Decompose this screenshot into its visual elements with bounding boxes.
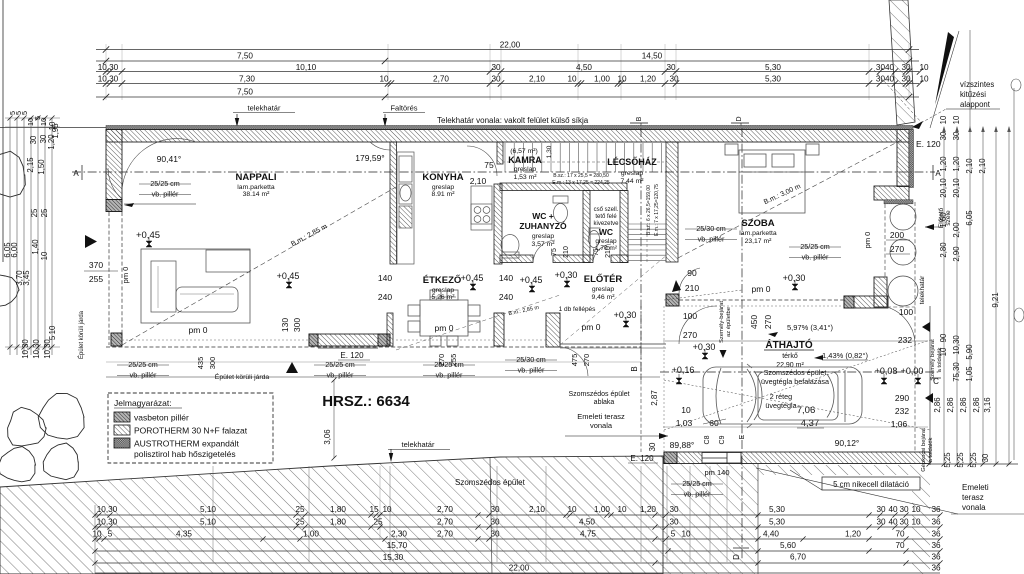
door arc wc <box>593 244 611 262</box>
svg-text:1 db fellépés: 1 db fellépés <box>559 306 597 313</box>
wall wc east <box>620 191 628 263</box>
svg-text:Épület körüli járda: Épület körüli járda <box>78 310 85 359</box>
car in athajto <box>703 364 862 428</box>
svg-text:vízszintes: vízszintes <box>960 80 994 89</box>
svg-text:270: 270 <box>890 244 904 254</box>
svg-text:greslap: greslap <box>595 238 617 245</box>
svg-text:30: 30 <box>876 518 886 527</box>
svg-text:D: D <box>732 554 741 560</box>
svg-text:a toldalék: a toldalék <box>937 347 943 372</box>
svg-text:POROTHERM 30 N+F falazat: POROTHERM 30 N+F falazat <box>134 426 248 436</box>
svg-text:az épületbe: az épületbe <box>726 307 732 337</box>
svg-text:9,21: 9,21 <box>991 292 1000 307</box>
svg-text:5: 5 <box>48 335 57 340</box>
svg-text:5,30: 5,30 <box>765 75 781 84</box>
svg-text:5,30: 5,30 <box>769 518 785 527</box>
lot boundary left <box>2 0 4 262</box>
svg-text:25/30 cm: 25/30 cm <box>696 224 726 233</box>
svg-text:450: 450 <box>749 315 759 329</box>
door arc szoba east <box>887 307 915 347</box>
svg-text:2,86: 2,86 <box>972 397 981 412</box>
svg-text:Szomszédos épület: Szomszédos épület <box>764 368 827 377</box>
svg-text:E. 120: E. 120 <box>340 351 364 360</box>
svg-text:30: 30 <box>490 505 500 514</box>
sidewalk line <box>106 376 660 378</box>
door arc nappali west <box>108 168 122 199</box>
wc south walls with door gaps <box>500 255 533 263</box>
svg-text:25/25 cm: 25/25 cm <box>128 360 158 369</box>
legend porotherm <box>114 425 130 435</box>
axis B vertical <box>640 128 642 380</box>
svg-text:(6,57 m²): (6,57 m²) <box>510 148 538 155</box>
svg-text:30: 30 <box>981 453 990 462</box>
svg-text:telekhatár: telekhatár <box>402 440 435 449</box>
svg-text:3,16: 3,16 <box>983 397 992 412</box>
svg-text:240: 240 <box>378 292 392 302</box>
svg-text:10: 10 <box>911 505 921 514</box>
svg-text:10,30: 10,30 <box>43 339 52 359</box>
wall between nappali and konyha <box>390 142 397 264</box>
szoba south pillar <box>666 294 679 306</box>
svg-text:vb. pillér: vb. pillér <box>698 235 725 244</box>
svg-text:15,30: 15,30 <box>383 553 404 562</box>
svg-text:ÉTKEZŐ: ÉTKEZŐ <box>423 274 462 286</box>
svg-text:30: 30 <box>669 75 679 84</box>
svg-text:6,70: 6,70 <box>790 553 806 562</box>
left dimension chains <box>3 111 60 359</box>
exterior wall left <box>106 130 122 200</box>
door arc konyha-kamra <box>467 146 497 176</box>
svg-text:7,44 m²: 7,44 m² <box>620 178 644 185</box>
svg-text:KAMRA: KAMRA <box>508 155 542 165</box>
svg-text:30: 30 <box>490 530 500 539</box>
svg-text:5,10: 5,10 <box>200 505 216 514</box>
svg-text:5 cm nikecell dilatáció: 5 cm nikecell dilatáció <box>833 480 910 489</box>
svg-text:vonala: vonala <box>590 421 613 430</box>
svg-text:30: 30 <box>669 505 679 514</box>
neighbour building hatched area (bottom) <box>0 456 930 574</box>
svg-text:1,03: 1,03 <box>676 418 693 428</box>
svg-text:2,86: 2,86 <box>959 397 968 412</box>
north triangle bottom <box>286 362 298 373</box>
svg-text:36: 36 <box>931 553 941 562</box>
dashed terrace edge left wall line <box>108 212 110 345</box>
svg-text:25: 25 <box>295 518 305 527</box>
legend austrotherm <box>114 438 130 448</box>
exterior wall top: insulation layer <box>106 126 913 130</box>
svg-text:300: 300 <box>208 357 217 370</box>
svg-text:A: A <box>935 169 941 178</box>
svg-text:25: 25 <box>373 518 383 527</box>
svg-text:140: 140 <box>378 273 392 283</box>
svg-text:10: 10 <box>681 530 691 539</box>
legend vasbeton <box>114 412 130 422</box>
svg-text:Személy-bejárat: Személy-bejárat <box>719 301 725 343</box>
svg-text:3,45: 3,45 <box>22 270 31 286</box>
svg-text:ablaka: ablaka <box>594 399 615 406</box>
svg-text:B: B <box>636 116 643 121</box>
svg-text:2,10: 2,10 <box>529 505 545 514</box>
svg-text:4,50: 4,50 <box>579 518 595 527</box>
svg-text:210: 210 <box>605 246 612 258</box>
svg-text:1,00: 1,00 <box>594 505 610 514</box>
svg-text:10: 10 <box>48 325 57 334</box>
svg-text:210: 210 <box>563 246 570 258</box>
svg-text:+0,16: +0,16 <box>672 365 695 375</box>
svg-text:3,57 m²: 3,57 m² <box>531 241 555 248</box>
svg-text:435: 435 <box>196 357 205 370</box>
svg-text:30: 30 <box>952 131 961 140</box>
svg-text:270: 270 <box>437 354 446 367</box>
svg-text:25: 25 <box>295 505 305 514</box>
kitchen east wall <box>494 184 502 264</box>
svg-text:vb. pillér: vb. pillér <box>327 371 354 380</box>
svg-text:25/30 cm: 25/30 cm <box>516 355 546 364</box>
svg-text:ELŐTÉR: ELŐTÉR <box>584 273 623 285</box>
svg-text:10: 10 <box>919 75 929 84</box>
svg-text:9,46 m²: 9,46 m² <box>591 294 615 301</box>
svg-text:B.sz.: 6 x 26,5=159,00: B.sz.: 6 x 26,5=159,00 <box>646 185 652 235</box>
svg-text:10,30: 10,30 <box>98 63 119 72</box>
kamra west wall <box>497 142 503 164</box>
exterior wall right (NE) <box>897 130 909 187</box>
svg-text:40: 40 <box>888 505 898 514</box>
wall wc/zuhanyzo east <box>583 191 590 263</box>
svg-text:C9: C9 <box>719 435 726 444</box>
svg-text:1,95: 1,95 <box>51 123 60 139</box>
svg-text:36: 36 <box>931 518 941 527</box>
elotér south step lines <box>560 343 666 345</box>
svg-text:5,30: 5,30 <box>765 63 781 72</box>
south wall piece elorer <box>546 313 560 347</box>
south wall pillar at sofa left <box>111 333 122 346</box>
svg-text:terasz: terasz <box>962 493 984 502</box>
svg-text:greslap: greslap <box>432 184 455 191</box>
svg-text:255: 255 <box>449 354 458 367</box>
shrubs in east bay <box>890 204 916 230</box>
svg-text:10,30: 10,30 <box>97 505 118 514</box>
svg-text:pm 0: pm 0 <box>189 325 208 335</box>
svg-text:25/25 cm: 25/25 cm <box>800 242 830 251</box>
svg-text:2,10: 2,10 <box>965 158 974 174</box>
svg-text:30: 30 <box>669 518 679 527</box>
door arc athajto west <box>679 306 717 344</box>
svg-text:lam.parketta: lam.parketta <box>739 230 777 237</box>
svg-text:NAPPALI: NAPPALI <box>236 172 277 183</box>
svg-text:2 réteg: 2 réteg <box>770 392 792 401</box>
svg-text:100: 100 <box>683 311 697 321</box>
svg-text:lam.parketta: lam.parketta <box>237 184 275 191</box>
svg-text:E. 120: E. 120 <box>916 139 941 149</box>
svg-text:240: 240 <box>499 292 513 302</box>
legend box <box>108 393 273 463</box>
svg-text:10: 10 <box>567 75 577 84</box>
diagonal line etkezo <box>396 295 560 350</box>
athajto bottom wall <box>664 452 930 464</box>
svg-text:5,10: 5,10 <box>200 518 216 527</box>
top dimension chains <box>96 41 929 101</box>
svg-text:10,30: 10,30 <box>32 339 41 359</box>
svg-text:üvegtégla befalazása: üvegtégla befalazása <box>761 377 829 386</box>
svg-text:1,06: 1,06 <box>891 419 908 429</box>
svg-text:2,15: 2,15 <box>26 157 35 173</box>
svg-text:2,00: 2,00 <box>952 222 961 238</box>
svg-text:WC +: WC + <box>532 211 554 221</box>
svg-text:10: 10 <box>567 505 577 514</box>
svg-text:30: 30 <box>490 518 500 527</box>
svg-text:5,25: 5,25 <box>956 452 965 468</box>
svg-text:telekhatár: telekhatár <box>919 275 926 304</box>
dashed south edge nappali <box>106 346 641 348</box>
bottom dimension chains <box>92 466 942 574</box>
svg-text:a toldalék: a toldalék <box>928 437 934 462</box>
svg-text:10,30: 10,30 <box>97 518 118 527</box>
svg-text:22,00: 22,00 <box>509 564 530 573</box>
kitchen counter west <box>397 152 414 264</box>
svg-text:23,17 m²: 23,17 m² <box>745 238 773 245</box>
svg-text:90,41°: 90,41° <box>157 154 182 164</box>
svg-text:15,70: 15,70 <box>387 541 408 550</box>
svg-text:1,40: 1,40 <box>31 239 40 255</box>
axis C right <box>660 371 940 373</box>
svg-text:pm 0: pm 0 <box>752 284 771 294</box>
svg-text:10: 10 <box>952 115 961 124</box>
svg-text:10: 10 <box>617 75 627 84</box>
svg-text:KONYHA: KONYHA <box>422 172 463 183</box>
svg-text:30: 30 <box>876 505 886 514</box>
szoba south wall segment east <box>844 296 888 308</box>
svg-text:10,10: 10,10 <box>296 63 317 72</box>
stairs lower flight treads <box>628 224 666 260</box>
svg-text:4,75: 4,75 <box>580 530 596 539</box>
svg-text:üvegtégla: üvegtégla <box>765 401 796 410</box>
diagonal line szoba <box>678 139 903 258</box>
south wall piece x387 <box>387 313 393 346</box>
svg-text:70: 70 <box>895 541 905 550</box>
svg-text:10: 10 <box>617 505 627 514</box>
svg-text:10,30: 10,30 <box>98 75 119 84</box>
svg-text:polisztirol hab hőszigetelés: polisztirol hab hőszigetelés <box>134 449 236 459</box>
svg-text:3040: 3040 <box>876 63 895 72</box>
svg-text:vb. pillér: vb. pillér <box>436 371 463 380</box>
svg-text:6,05: 6,05 <box>965 210 974 226</box>
diagonal lines athajto <box>664 380 930 430</box>
svg-text:+0,08: +0,08 <box>875 366 898 376</box>
svg-text:10: 10 <box>939 115 948 124</box>
svg-text:75,30: 75,30 <box>952 362 961 382</box>
svg-text:5,26 m²: 5,26 m² <box>431 294 455 301</box>
svg-text:475: 475 <box>570 354 579 367</box>
svg-text:+0,30: +0,30 <box>614 310 637 320</box>
svg-text:25: 25 <box>40 208 49 217</box>
trees <box>38 393 84 439</box>
svg-text:WC: WC <box>599 227 613 237</box>
svg-text:10: 10 <box>681 405 691 415</box>
right dimension chains <box>927 30 1024 468</box>
svg-text:25/25 cm: 25/25 cm <box>682 479 712 488</box>
svg-text:Emeleti terasz: Emeleti terasz <box>577 412 625 421</box>
diagonal line nappali <box>122 187 396 345</box>
svg-text:10,30: 10,30 <box>21 339 30 359</box>
svg-text:30: 30 <box>899 518 909 527</box>
east bay dashed lines <box>884 204 886 277</box>
svg-text:10: 10 <box>911 518 921 527</box>
svg-text:270: 270 <box>683 330 697 340</box>
axis D vertical <box>741 128 743 560</box>
svg-text:2,10: 2,10 <box>470 176 487 186</box>
svg-text:38.14 m²: 38.14 m² <box>243 191 271 198</box>
svg-text:1,00: 1,00 <box>303 530 319 539</box>
svg-text:A: A <box>73 169 79 178</box>
svg-text:1,20: 1,20 <box>952 156 961 172</box>
svg-text:E: E <box>739 434 746 439</box>
svg-text:3,06: 3,06 <box>323 429 332 444</box>
svg-text:232: 232 <box>898 335 912 345</box>
svg-text:179,59°: 179,59° <box>355 153 384 163</box>
svg-text:2,10: 2,10 <box>529 75 545 84</box>
svg-text:+0,30: +0,30 <box>693 342 716 352</box>
svg-text:232: 232 <box>895 406 909 416</box>
exterior wall top: porotherm <box>106 130 909 143</box>
svg-text:30: 30 <box>901 63 911 72</box>
door arc wc+z <box>533 240 555 262</box>
svg-text:5,30: 5,30 <box>769 505 785 514</box>
svg-text:Jelmagyarázat:: Jelmagyarázat: <box>114 398 172 408</box>
svg-text:greslap: greslap <box>592 286 615 293</box>
svg-text:Épület körüli járda: Épület körüli járda <box>215 372 270 381</box>
svg-text:1,53 m²: 1,53 m² <box>513 174 537 181</box>
svg-text:greslap: greslap <box>532 233 555 240</box>
svg-text:1,80: 1,80 <box>330 518 346 527</box>
diagonal line elotér <box>560 254 668 345</box>
stairs upper flight treads <box>505 143 661 172</box>
svg-text:vb. pillér: vb. pillér <box>130 371 157 380</box>
svg-text:széle: széle <box>945 210 952 226</box>
wall notch east <box>874 186 909 200</box>
svg-text:B.sz.: 17 x 25,5 = 280,50: B.sz.: 17 x 25,5 = 280,50 <box>553 173 609 179</box>
svg-text:pm 0: pm 0 <box>582 322 601 332</box>
svg-text:75: 75 <box>593 248 600 256</box>
svg-text:2,70: 2,70 <box>437 505 453 514</box>
svg-text:2,90: 2,90 <box>952 246 961 262</box>
svg-text:140: 140 <box>499 273 513 283</box>
svg-text:10: 10 <box>382 505 392 514</box>
wc+zuhanyzo fixtures <box>501 196 568 258</box>
svg-text:Szomszédos épület: Szomszédos épület <box>568 391 629 398</box>
svg-text:vb. pillér: vb. pillér <box>518 366 545 375</box>
svg-text:greslap: greslap <box>514 166 537 173</box>
svg-text:2,70: 2,70 <box>437 530 453 539</box>
svg-text:HRSZ.: 6634: HRSZ.: 6634 <box>322 393 410 410</box>
svg-text:90: 90 <box>687 268 697 278</box>
pillar east mid <box>874 277 887 307</box>
svg-text:greslap: greslap <box>621 170 644 177</box>
svg-text:vasbeton pillér: vasbeton pillér <box>134 413 189 423</box>
svg-text:370: 370 <box>89 260 103 270</box>
svg-text:Előtető: Előtető <box>938 208 945 229</box>
svg-text:5,90: 5,90 <box>965 344 974 360</box>
svg-text:1,05: 1,05 <box>965 366 974 382</box>
svg-text:30: 30 <box>666 63 676 72</box>
svg-text:30: 30 <box>899 505 909 514</box>
svg-text:Telekhatár vonala: vakolt felü: Telekhatár vonala: vakolt felület külső … <box>437 116 589 125</box>
svg-text:4,40: 4,40 <box>763 530 779 539</box>
dining table <box>408 290 480 346</box>
svg-text:100: 100 <box>899 307 913 317</box>
svg-text:1,00: 1,00 <box>594 75 610 84</box>
svg-text:1,80: 1,80 <box>330 505 346 514</box>
athajto west dashed <box>640 306 642 452</box>
svg-text:E. 120: E. 120 <box>630 454 654 463</box>
svg-text:5: 5 <box>20 111 29 115</box>
svg-text:2,80: 2,80 <box>939 242 948 258</box>
svg-text:vb. pillér: vb. pillér <box>152 190 179 199</box>
svg-text:14,50: 14,50 <box>642 52 663 61</box>
svg-text:4,35: 4,35 <box>176 530 192 539</box>
svg-text:greslap: greslap <box>432 287 455 294</box>
neighbour wall strip top right <box>889 0 915 125</box>
szoba south dashed <box>679 299 844 301</box>
svg-text:10: 10 <box>92 530 102 539</box>
svg-text:2,70: 2,70 <box>433 75 449 84</box>
svg-text:89,88°: 89,88° <box>670 440 695 450</box>
door arc elotér terrace <box>560 347 588 376</box>
big angle arc left <box>122 139 196 197</box>
south wall segment etkezo <box>309 334 390 346</box>
svg-text:+0,00: +0,00 <box>901 366 924 376</box>
svg-text:90,12°: 90,12° <box>835 438 860 448</box>
svg-text:+0,45: +0,45 <box>461 273 484 283</box>
svg-text:10,30: 10,30 <box>952 335 961 355</box>
south wall piece x497 <box>494 313 504 346</box>
svg-text:200: 200 <box>890 230 904 240</box>
athajto dim line <box>663 340 928 342</box>
svg-text:36: 36 <box>931 541 941 550</box>
svg-text:E.m.: 7 x 17,25=120,75: E.m.: 7 x 17,25=120,75 <box>654 184 660 236</box>
svg-text:C8: C8 <box>704 435 711 444</box>
svg-text:Személy bejárat: Személy bejárat <box>930 339 936 381</box>
svg-text:E.m.: 13 x 17,25 = 224,25: E.m.: 13 x 17,25 = 224,25 <box>552 180 610 186</box>
svg-text:térkő: térkő <box>782 353 798 360</box>
svg-text:D: D <box>736 116 743 121</box>
svg-text:70: 70 <box>895 530 905 539</box>
svg-text:5,97% (3,41°): 5,97% (3,41°) <box>787 323 833 332</box>
svg-text:25: 25 <box>30 208 39 217</box>
kitchen counter east with stove <box>471 186 492 230</box>
svg-text:tető felé: tető felé <box>595 214 617 220</box>
svg-text:1,50: 1,50 <box>37 159 46 175</box>
svg-text:36: 36 <box>931 530 941 539</box>
entrance triangle left <box>85 235 97 248</box>
svg-text:36: 36 <box>931 564 941 573</box>
svg-text:2,70: 2,70 <box>437 518 453 527</box>
svg-text:30: 30 <box>491 63 501 72</box>
svg-text:10: 10 <box>39 118 48 126</box>
svg-text:B: B <box>630 366 639 371</box>
axis A horizontal <box>72 171 935 173</box>
svg-text:kitűzési: kitűzési <box>960 90 986 99</box>
svg-text:pm 0: pm 0 <box>863 232 872 249</box>
kamra south wall <box>500 183 627 191</box>
svg-text:5: 5 <box>108 530 113 539</box>
svg-text:+0,30: +0,30 <box>555 270 578 280</box>
svg-text:pm 140: pm 140 <box>704 468 729 477</box>
svg-text:25/25 cm: 25/25 cm <box>325 360 355 369</box>
svg-text:alappont: alappont <box>960 100 991 109</box>
svg-text:7,50: 7,50 <box>237 88 253 97</box>
svg-text:Gépkocsi bejárat: Gépkocsi bejárat <box>921 428 927 472</box>
svg-text:75: 75 <box>551 248 558 256</box>
